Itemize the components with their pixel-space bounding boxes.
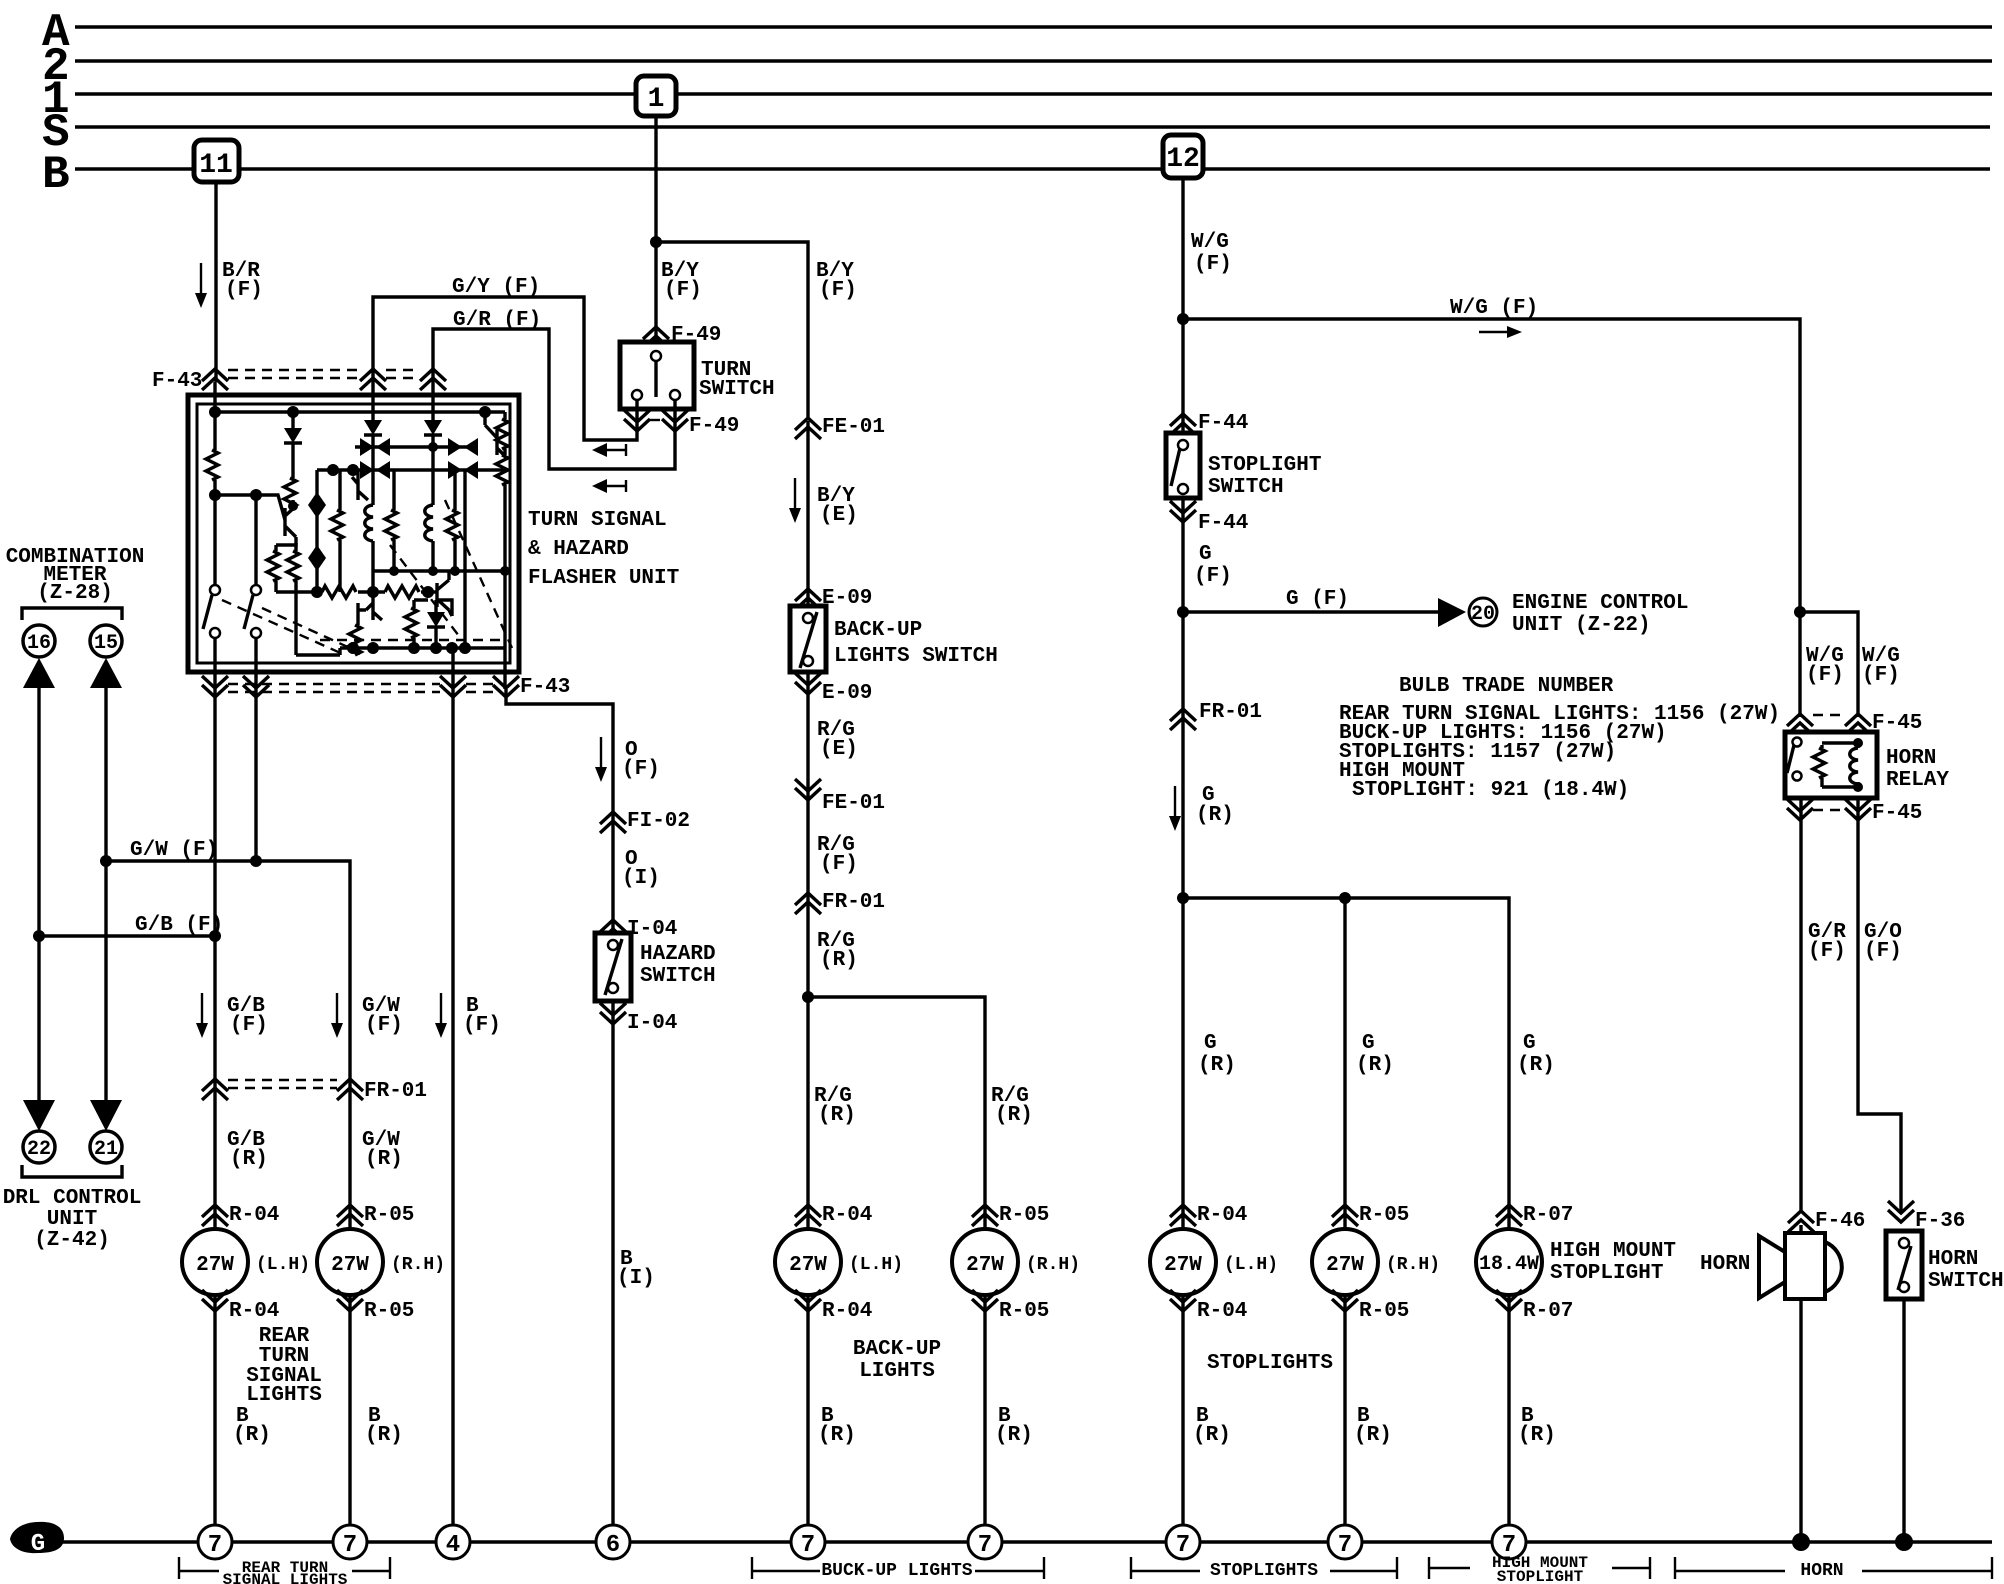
svg-text:F-46: F-46 [1815, 1210, 1865, 1233]
svg-text:(E): (E) [820, 738, 858, 761]
svg-text:BULB TRADE NUMBER: BULB TRADE NUMBER [1399, 675, 1614, 698]
svg-text:HIGH MOUNT: HIGH MOUNT [1550, 1240, 1676, 1263]
svg-text:R-04: R-04 [229, 1300, 279, 1323]
svg-text:(L.H): (L.H) [1224, 1255, 1278, 1275]
svg-text:20: 20 [1471, 603, 1495, 626]
svg-text:(R): (R) [1196, 804, 1234, 827]
svg-text:G: G [1204, 1032, 1217, 1055]
svg-text:(R.H): (R.H) [1386, 1255, 1440, 1275]
svg-text:F-45: F-45 [1872, 712, 1922, 735]
svg-text:R-04: R-04 [1197, 1204, 1247, 1227]
svg-text:E-09: E-09 [822, 587, 872, 610]
svg-text:F-44: F-44 [1198, 512, 1248, 535]
svg-text:SWITCH: SWITCH [699, 378, 775, 401]
svg-text:R-07: R-07 [1523, 1204, 1573, 1227]
svg-text:G: G [1362, 1032, 1375, 1055]
svg-text:R-07: R-07 [1523, 1300, 1573, 1323]
svg-text:27W: 27W [331, 1254, 369, 1277]
svg-text:R-04: R-04 [1197, 1300, 1247, 1323]
svg-text:(L.H): (L.H) [849, 1255, 903, 1275]
svg-text:15: 15 [94, 632, 118, 655]
svg-text:W/G: W/G [1191, 231, 1229, 254]
svg-text:(R): (R) [820, 949, 858, 972]
svg-text:I-04: I-04 [627, 1012, 677, 1035]
svg-text:R-05: R-05 [999, 1204, 1049, 1227]
svg-text:G/Y (F): G/Y (F) [452, 276, 540, 299]
svg-text:UNIT: UNIT [47, 1208, 97, 1231]
svg-text:(Z-42): (Z-42) [34, 1229, 110, 1252]
svg-text:18.4W: 18.4W [1479, 1253, 1539, 1276]
svg-text:R-04: R-04 [822, 1204, 872, 1227]
svg-text:(F): (F) [365, 1014, 403, 1037]
svg-text:27W: 27W [1326, 1254, 1364, 1277]
svg-text:FR-01: FR-01 [822, 891, 885, 914]
svg-text:HORN: HORN [1928, 1248, 1978, 1271]
svg-text:SWITCH: SWITCH [1208, 476, 1284, 499]
svg-text:LIGHTS: LIGHTS [246, 1384, 322, 1407]
svg-text:R-04: R-04 [229, 1204, 279, 1227]
svg-text:27W: 27W [966, 1254, 1004, 1277]
svg-text:16: 16 [27, 632, 51, 655]
svg-text:(F): (F) [225, 279, 263, 302]
svg-text:R-05: R-05 [999, 1300, 1049, 1323]
svg-text:UNIT (Z-22): UNIT (Z-22) [1512, 614, 1651, 637]
svg-text:F-43: F-43 [520, 676, 570, 699]
svg-text:(F): (F) [463, 1014, 501, 1037]
svg-text:4: 4 [446, 1532, 460, 1559]
svg-text:G: G [31, 1531, 45, 1558]
svg-text:STOPLIGHT: STOPLIGHT [1208, 454, 1321, 477]
svg-text:FR-01: FR-01 [364, 1080, 427, 1103]
svg-text:F-49: F-49 [689, 415, 739, 438]
svg-text:(F): (F) [1194, 565, 1232, 588]
svg-text:F-43: F-43 [152, 370, 202, 393]
svg-text:BACK-UP: BACK-UP [834, 619, 922, 642]
svg-text:(R): (R) [818, 1424, 856, 1447]
svg-text:(R): (R) [1517, 1054, 1555, 1077]
svg-text:(F): (F) [1808, 940, 1846, 963]
svg-text:(R.H): (R.H) [391, 1255, 445, 1275]
svg-text:SIGNAL LIGHTS: SIGNAL LIGHTS [223, 1571, 348, 1584]
svg-text:HAZARD: HAZARD [640, 943, 716, 966]
svg-text:(R.H): (R.H) [1026, 1255, 1080, 1275]
svg-text:FI-02: FI-02 [627, 810, 690, 833]
svg-text:TURN SIGNAL: TURN SIGNAL [528, 509, 667, 532]
svg-text:FLASHER UNIT: FLASHER UNIT [528, 567, 679, 590]
svg-text:BUCK-UP LIGHTS: BUCK-UP LIGHTS [821, 1561, 972, 1581]
svg-text:21: 21 [94, 1138, 118, 1161]
svg-text:I-04: I-04 [627, 918, 677, 941]
svg-text:(R): (R) [1518, 1424, 1556, 1447]
svg-text:(F): (F) [820, 853, 858, 876]
svg-text:LIGHTS: LIGHTS [859, 1360, 935, 1383]
svg-text:(L.H): (L.H) [256, 1255, 310, 1275]
svg-text:(R): (R) [365, 1424, 403, 1447]
svg-text:(R): (R) [995, 1104, 1033, 1127]
svg-text:STOPLIGHT: STOPLIGHT [1497, 1568, 1584, 1584]
svg-text:E-09: E-09 [822, 682, 872, 705]
svg-text:(F): (F) [622, 758, 660, 781]
svg-text:27W: 27W [1164, 1254, 1202, 1277]
svg-text:R-05: R-05 [364, 1300, 414, 1323]
svg-text:1: 1 [648, 84, 665, 115]
svg-text:SWITCH: SWITCH [1928, 1270, 2004, 1293]
svg-text:22: 22 [27, 1138, 51, 1161]
svg-text:(R): (R) [230, 1148, 268, 1171]
svg-text:FE-01: FE-01 [822, 792, 885, 815]
svg-text:(R): (R) [233, 1424, 271, 1447]
svg-text:R-04: R-04 [822, 1300, 872, 1323]
svg-text:FE-01: FE-01 [822, 416, 885, 439]
svg-text:(F): (F) [1864, 940, 1902, 963]
svg-text:G/W (F): G/W (F) [130, 839, 218, 862]
svg-text:(R): (R) [818, 1104, 856, 1127]
svg-text:FR-01: FR-01 [1199, 701, 1262, 724]
svg-text:HORN: HORN [1886, 747, 1936, 770]
svg-text:(R): (R) [995, 1424, 1033, 1447]
svg-text:DRL CONTROL: DRL CONTROL [3, 1187, 142, 1210]
svg-text:B: B [42, 149, 70, 201]
svg-text:(R): (R) [1356, 1054, 1394, 1077]
svg-text:F-45: F-45 [1872, 802, 1922, 825]
svg-text:STOPLIGHT: STOPLIGHT [1550, 1262, 1663, 1285]
svg-text:G/B (F): G/B (F) [135, 914, 223, 937]
svg-text:27W: 27W [196, 1254, 234, 1277]
svg-text:12: 12 [1166, 144, 1200, 175]
svg-text:27W: 27W [789, 1254, 827, 1277]
svg-text:G/R (F): G/R (F) [453, 309, 541, 332]
svg-text:STOPLIGHTS: STOPLIGHTS [1207, 1352, 1333, 1375]
svg-text:G: G [1523, 1032, 1536, 1055]
svg-text:(Z-28): (Z-28) [37, 582, 113, 605]
svg-text:R-05: R-05 [1359, 1300, 1409, 1323]
svg-text:(I): (I) [622, 867, 660, 890]
svg-text:BACK-UP: BACK-UP [853, 1338, 941, 1361]
svg-text:(I): (I) [617, 1267, 655, 1290]
svg-text:LIGHTS SWITCH: LIGHTS SWITCH [834, 645, 998, 668]
svg-text:HORN: HORN [1800, 1561, 1843, 1581]
svg-text:RELAY: RELAY [1886, 769, 1949, 792]
svg-text:ENGINE CONTROL: ENGINE CONTROL [1512, 592, 1688, 615]
svg-text:(R): (R) [1198, 1054, 1236, 1077]
svg-text:G: G [1199, 543, 1212, 566]
svg-text:11: 11 [199, 150, 233, 181]
svg-text:6: 6 [606, 1532, 620, 1559]
svg-text:(R): (R) [1193, 1424, 1231, 1447]
svg-text:& HAZARD: & HAZARD [528, 538, 629, 561]
svg-text:STOPLIGHT: 921 (18.4W): STOPLIGHT: 921 (18.4W) [1352, 779, 1629, 802]
svg-text:R-05: R-05 [1359, 1204, 1409, 1227]
svg-text:SWITCH: SWITCH [640, 965, 716, 988]
svg-text:(F): (F) [1862, 664, 1900, 687]
svg-text:(R): (R) [365, 1148, 403, 1171]
svg-text:STOPLIGHTS: STOPLIGHTS [1210, 1561, 1318, 1581]
svg-text:(E): (E) [820, 504, 858, 527]
svg-text:(F): (F) [1194, 253, 1232, 276]
svg-text:(F): (F) [1806, 664, 1844, 687]
svg-text:(F): (F) [230, 1014, 268, 1037]
svg-text:W/G (F): W/G (F) [1450, 297, 1538, 320]
svg-text:(R): (R) [1354, 1424, 1392, 1447]
svg-text:HORN: HORN [1700, 1253, 1750, 1276]
svg-text:R-05: R-05 [364, 1204, 414, 1227]
svg-text:G (F): G (F) [1286, 588, 1349, 611]
svg-text:(F): (F) [819, 279, 857, 302]
svg-text:(F): (F) [664, 279, 702, 302]
svg-text:F-44: F-44 [1198, 412, 1248, 435]
